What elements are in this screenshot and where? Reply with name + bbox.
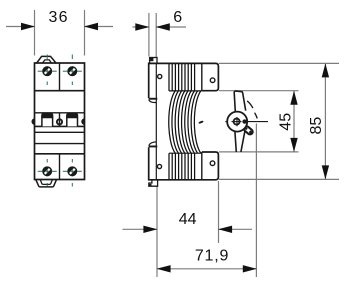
svg-text:44: 44 xyxy=(179,211,197,228)
svg-text:71,9: 71,9 xyxy=(195,248,229,265)
svg-text:85: 85 xyxy=(308,117,325,135)
svg-text:36: 36 xyxy=(48,9,68,26)
svg-text:6: 6 xyxy=(173,9,182,26)
svg-text:45: 45 xyxy=(277,113,294,131)
